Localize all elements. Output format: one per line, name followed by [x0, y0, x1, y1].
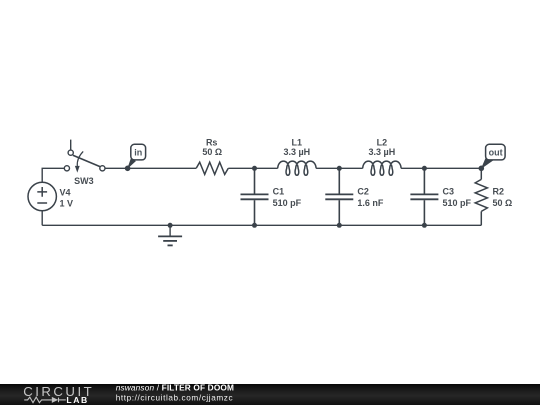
wire L1 to node C2	[316, 167, 339, 169]
wire node C2 to L2	[339, 167, 362, 169]
resistor Rs	[196, 162, 228, 174]
resistor R2	[475, 168, 487, 225]
node out flag	[479, 144, 506, 171]
node in flag	[125, 144, 146, 171]
inductor L2	[363, 161, 401, 175]
inductor L1	[278, 161, 316, 175]
voltage source V4	[28, 182, 56, 210]
junction dot C2 top	[337, 166, 342, 171]
wire L2 to node C3	[401, 167, 424, 169]
logo squiggle resistor	[24, 397, 66, 403]
capacitor C2	[325, 168, 353, 225]
wire V4 bottom lead	[41, 211, 43, 226]
junction dot C2 bottom	[337, 223, 342, 228]
logo diode	[52, 397, 58, 403]
capacitor C3	[410, 168, 438, 225]
wire bottom rail	[42, 224, 481, 226]
svg-text:nswanson / FILTER OF DOOM: nswanson / FILTER OF DOOM	[116, 382, 234, 392]
switch SW3	[64, 140, 105, 173]
svg-text:LAB: LAB	[66, 395, 88, 405]
junction dot C3 bottom	[422, 223, 427, 228]
junction dot C1 top	[252, 166, 257, 171]
footer bar	[0, 384, 540, 405]
wire node C3 to out node	[424, 167, 481, 169]
junction dot ground	[168, 223, 173, 228]
junction dot C3 top	[422, 166, 427, 171]
wire node C1 to L1	[255, 167, 278, 169]
ground	[158, 225, 182, 245]
junction dot C1 bottom	[252, 223, 257, 228]
svg-text:http://circuitlab.com/cjjamzc: http://circuitlab.com/cjjamzc	[116, 394, 234, 403]
wire V4 top to switch	[42, 168, 64, 182]
wire Rs to node C1	[228, 167, 254, 169]
capacitor C1	[241, 168, 269, 225]
wire switch to resistor Rs	[105, 167, 196, 169]
